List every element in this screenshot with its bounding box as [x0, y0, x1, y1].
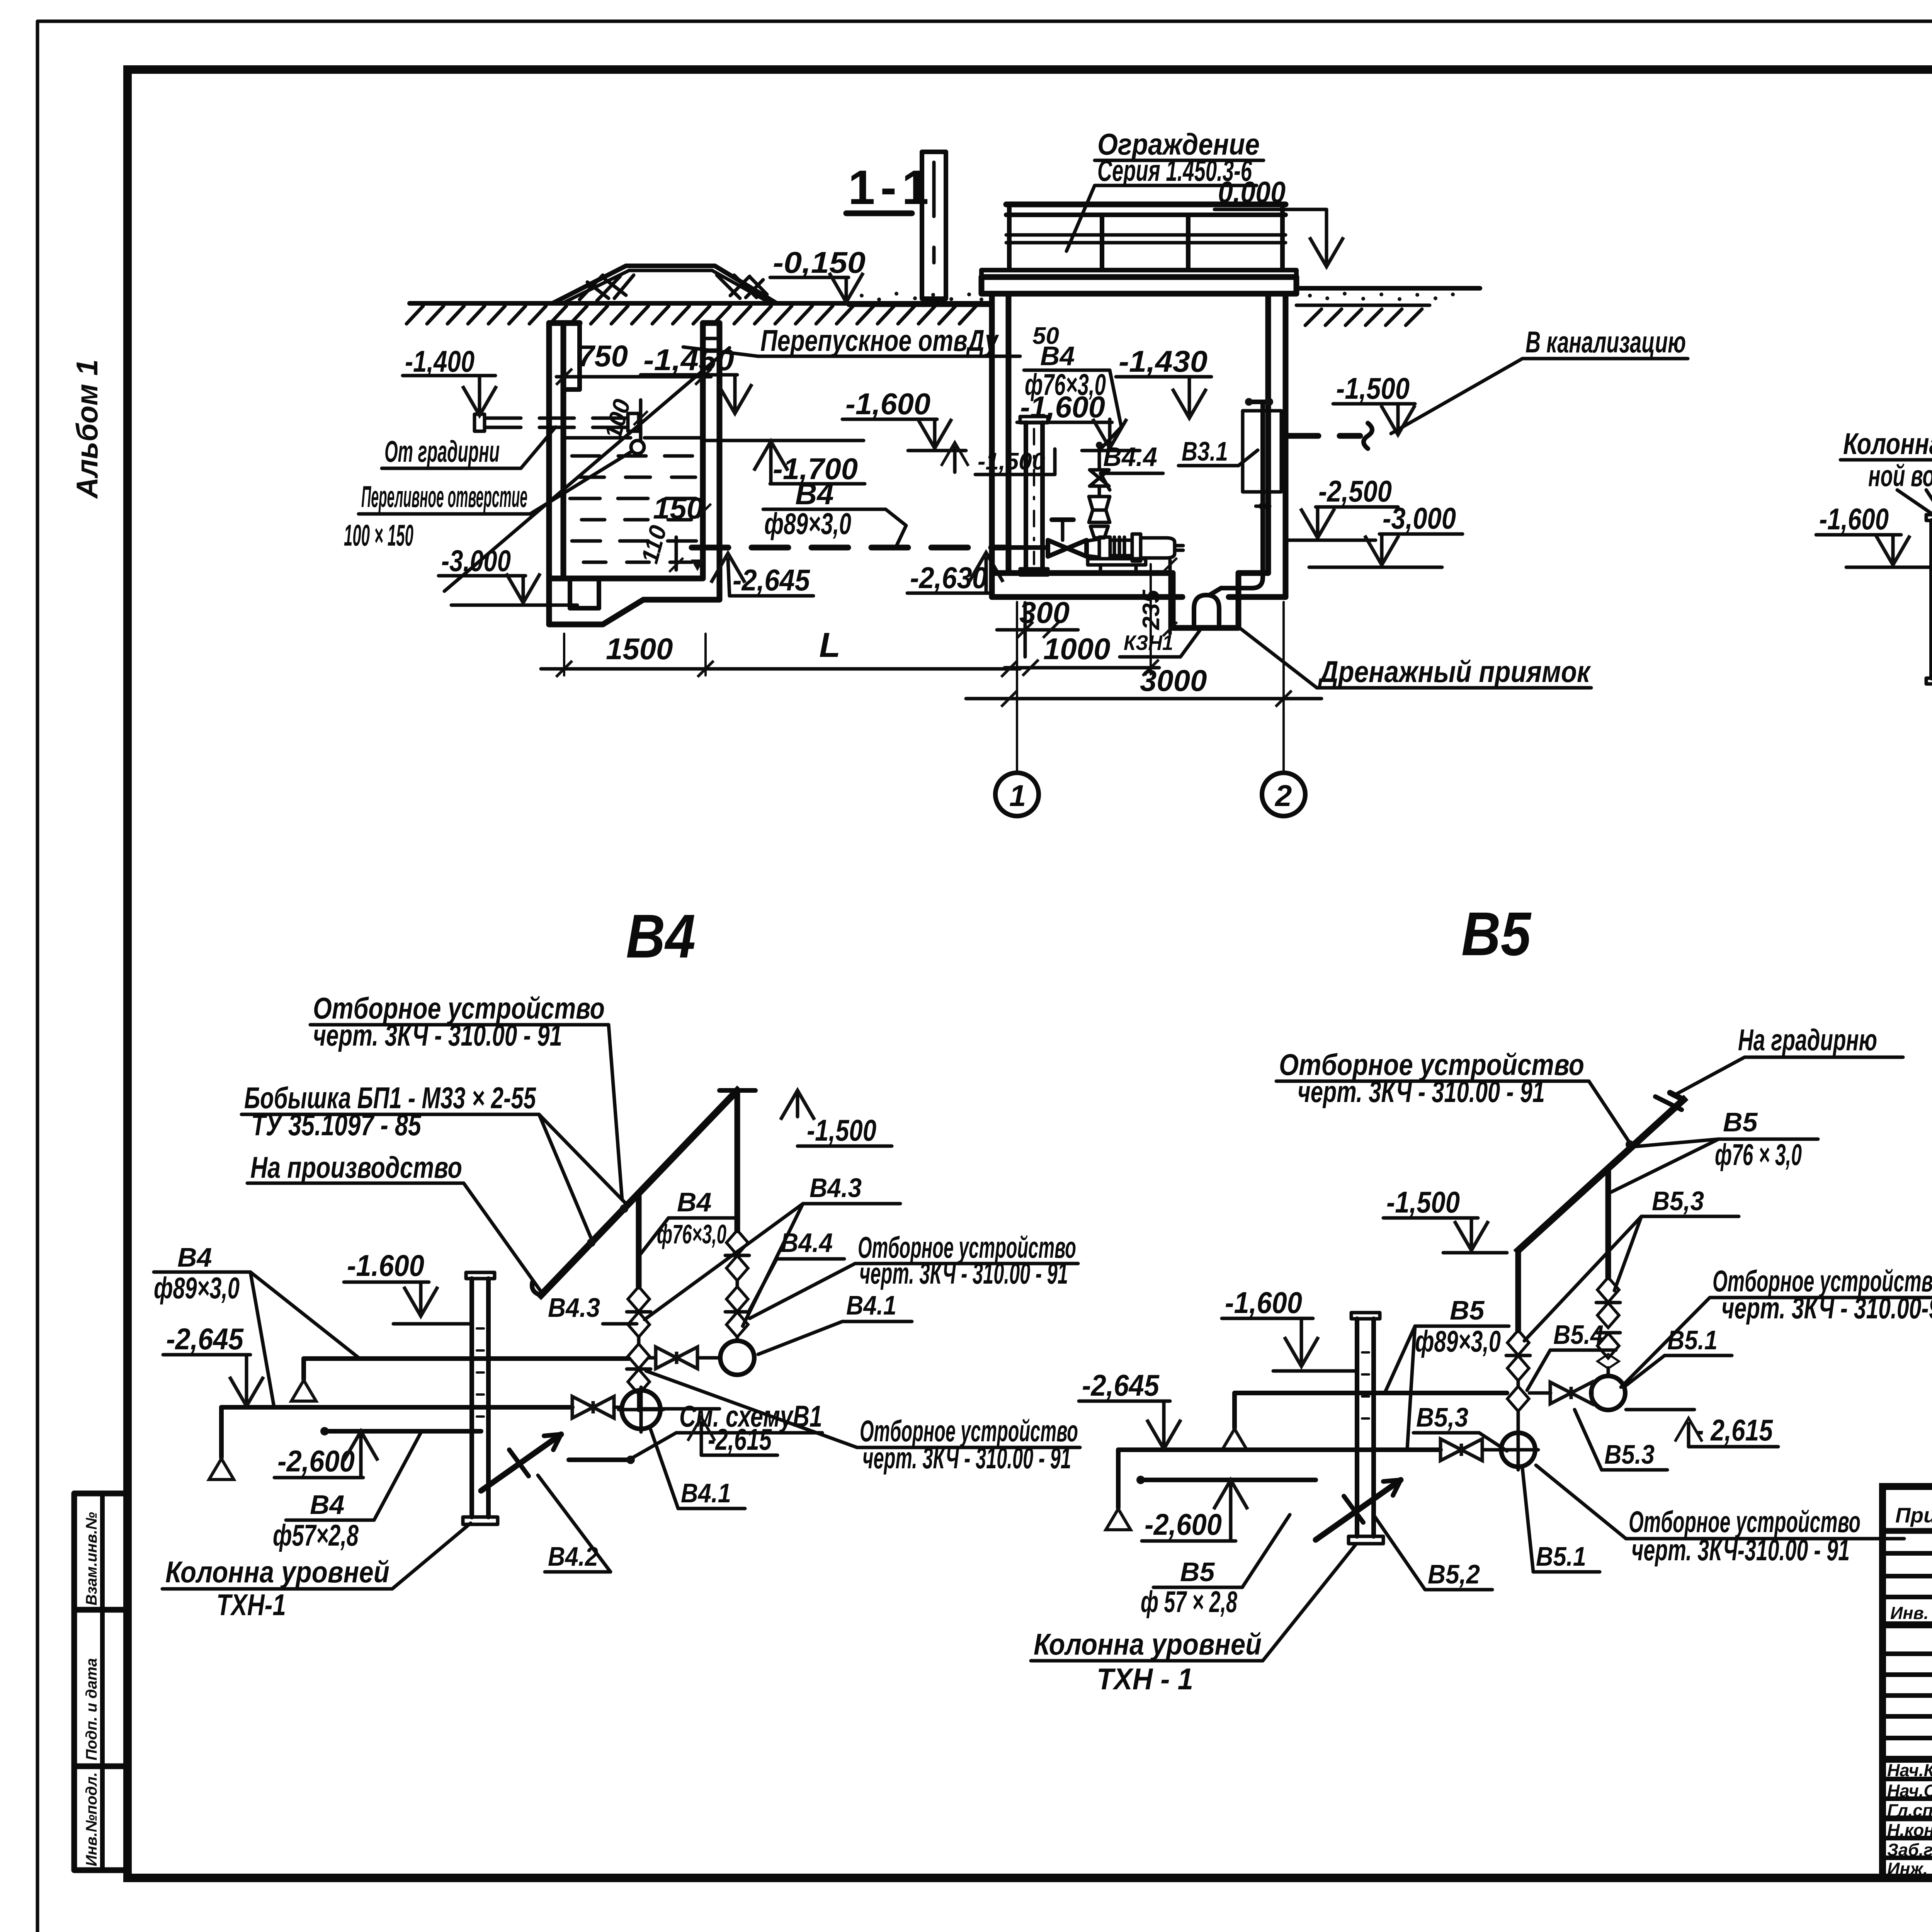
svg-text:2: 2 — [1274, 779, 1292, 813]
svg-text:черт. 3КЧ - 310.00 - 91: черт. 3КЧ - 310.00 - 91 — [313, 1018, 562, 1052]
valve stack B4.3 left — [627, 1287, 651, 1410]
svg-text:Подп. и дата: Подп. и дата — [83, 1658, 100, 1760]
water level line in tank — [566, 436, 631, 440]
svg-text:-2,600: -2,600 — [277, 1444, 355, 1478]
svg-text:-1,500: -1,500 — [807, 1113, 876, 1147]
label Колонна уровней ТХН-1 B5 — [1031, 1545, 1355, 1696]
fence label — [1066, 127, 1264, 251]
svg-text:Дренажный приямок: Дренажный приямок — [1318, 655, 1591, 689]
svg-text:1: 1 — [1009, 779, 1026, 813]
svg-text:черт. 3КЧ-310.00 - 91: черт. 3КЧ-310.00 - 91 — [1631, 1533, 1850, 1567]
svg-text:черт. 3КЧ - 310.00 - 91: черт. 3КЧ - 310.00 - 91 — [1298, 1075, 1545, 1109]
svg-text:Альбом 1: Альбом 1 — [70, 359, 104, 499]
svg-text:В5.1: В5.1 — [1667, 1325, 1718, 1355]
B4 dot line to См.схему В1 — [569, 1456, 635, 1464]
small table Привязан — [1883, 1486, 1932, 1879]
label 0.000 — [1214, 175, 1344, 267]
axis circle 2 — [1262, 602, 1305, 816]
label -3,000 tank floor — [439, 544, 577, 605]
dim 3000 — [966, 663, 1321, 707]
label B4.3 right fan — [645, 1173, 900, 1326]
labels -1,600 x2 — [842, 387, 966, 451]
svg-text:-1,500: -1,500 — [978, 448, 1045, 475]
svg-text:В5: В5 — [1723, 1107, 1758, 1137]
B3 level column — [1926, 515, 1932, 684]
svg-text:В5: В5 — [1461, 899, 1532, 968]
valve stack B5.3 left — [1506, 1330, 1530, 1434]
svg-text:-3,000: -3,000 — [441, 544, 511, 578]
B4 ф57 pipe with dot — [320, 1427, 481, 1435]
svg-text:В4.3: В4.3 — [548, 1293, 600, 1323]
earth mound over tank — [553, 266, 777, 303]
svg-text:В4.4: В4.4 — [781, 1228, 833, 1258]
svg-text:Взам.инв.№: Взам.инв.№ — [83, 1512, 100, 1605]
svg-text:Инж.: Инж. — [1887, 1859, 1928, 1879]
label B4 ф89х3,0 left — [154, 1242, 360, 1406]
B4 lower pipe — [209, 1396, 622, 1480]
inlet pipe from cooling tower — [474, 413, 639, 431]
valve stack B5.3 right — [1596, 1277, 1620, 1376]
B5 vertical drop left — [1515, 1250, 1521, 1330]
svg-text:3000: 3000 — [1140, 663, 1207, 697]
svg-text:В4: В4 — [795, 477, 834, 511]
B5 lower pipe — [1106, 1439, 1501, 1530]
svg-text:Гл.спец.: Гл.спец. — [1887, 1801, 1932, 1820]
drainage pit — [1173, 573, 1238, 628]
label -2,645 — [711, 553, 813, 597]
svg-text:Инв.№подл.: Инв.№подл. — [83, 1772, 100, 1866]
svg-text:ф89×3,0: ф89×3,0 — [764, 507, 851, 541]
label Отборное устройство черт 3КЧ-310.00-91 B5 top — [1276, 1048, 1630, 1143]
valve stack B4.4 in chamber — [1089, 442, 1110, 546]
B4 level column — [463, 1272, 498, 1524]
svg-text:1500: 1500 — [606, 632, 673, 666]
svg-text:В5: В5 — [1180, 1557, 1215, 1587]
dim 1500 — [541, 632, 723, 677]
svg-text:В4: В4 — [626, 901, 696, 971]
label B5 ф89х3,0 — [1385, 1295, 1509, 1448]
svg-text:ф76 × 3,0: ф76 × 3,0 — [1715, 1138, 1802, 1172]
svg-text:ф89×3,0: ф89×3,0 — [1415, 1324, 1501, 1358]
label B4 ф76х3,0 scheme — [641, 1187, 736, 1254]
B5 upper pipe — [1222, 1382, 1592, 1450]
svg-text:300: 300 — [1019, 595, 1070, 629]
sump — [570, 578, 599, 608]
label Отборное устройство B5 right — [1621, 1264, 1932, 1387]
label -1,700 — [703, 440, 865, 486]
svg-text:В5,3: В5,3 — [1416, 1402, 1468, 1432]
label B4.4 — [748, 1228, 844, 1313]
svg-text:-1,600: -1,600 — [1225, 1286, 1302, 1320]
svg-text:-2,500: -2,500 — [1318, 474, 1392, 508]
dim 110 vertical — [636, 522, 683, 572]
cooling water tank walls — [549, 323, 719, 624]
backfill strips with dots — [849, 292, 989, 305]
svg-text:КЗН1: КЗН1 — [1124, 631, 1173, 655]
B5 upper circle — [1591, 1376, 1625, 1410]
svg-text:-1,500: -1,500 — [1386, 1185, 1460, 1219]
svg-text:В3.1: В3.1 — [1182, 436, 1228, 466]
label -2,645 B5 — [1079, 1368, 1181, 1449]
dim 235 vertical — [1138, 558, 1177, 636]
level mark triangle at suction — [691, 560, 704, 571]
label -1,500 B4 — [781, 1090, 892, 1147]
label B3.1 — [1179, 436, 1258, 466]
label Переливное отверстие 100х150 — [344, 452, 631, 552]
label -2,600 B4 — [274, 1431, 378, 1478]
label Бобышка БП1-М33х2-55 ТУ 35.1097-85 — [241, 1081, 626, 1238]
label B5.1 second — [1522, 1468, 1600, 1572]
label B5.3 third — [1575, 1410, 1667, 1470]
svg-text:150: 150 — [653, 491, 703, 525]
svg-text:В5.3: В5.3 — [1604, 1439, 1655, 1469]
svg-text:В4.1: В4.1 — [681, 1478, 731, 1508]
level column in chamber — [1020, 417, 1048, 575]
svg-text:-3,000: -3,000 — [1383, 501, 1456, 535]
pump unit — [1048, 520, 1183, 573]
B3.1 console and pipe right side — [1209, 398, 1281, 595]
label КЗН1 — [1120, 627, 1202, 657]
label B4 ф57х2,8 — [273, 1432, 421, 1552]
label -2,500 — [1287, 474, 1398, 540]
svg-text:0.000: 0.000 — [1218, 175, 1286, 209]
svg-text:ной воды ТХН-1: ной воды ТХН-1 — [1868, 459, 1932, 493]
svg-text:ТУ 35.1097 - 85: ТУ 35.1097 - 85 — [251, 1108, 422, 1142]
svg-text:ф76×3,0: ф76×3,0 — [657, 1219, 726, 1249]
svg-text:-1,500: -1,500 — [1336, 371, 1410, 405]
svg-text:-1,430: -1,430 — [1119, 344, 1207, 378]
svg-text:ф57×2,8: ф57×2,8 — [273, 1518, 359, 1552]
label -2,615 B4 — [643, 1409, 777, 1456]
dim 750 — [556, 339, 711, 385]
label B4.1 first — [758, 1290, 912, 1354]
label -1,600 B3 — [1816, 502, 1932, 567]
B4 lower circle — [619, 1387, 663, 1432]
dim 300 — [997, 595, 1078, 657]
svg-text:Инв. №: Инв. № — [1890, 1603, 1932, 1623]
B4 upper pipe — [291, 1347, 720, 1401]
label B4.4 — [1100, 442, 1163, 490]
svg-text:В5.1: В5.1 — [1536, 1541, 1586, 1571]
label B5,3 first fan — [1524, 1186, 1739, 1341]
label На производство — [247, 1150, 543, 1294]
label -2,630 — [907, 553, 1003, 595]
top slab — [981, 274, 1296, 280]
B5 diagonal pipe — [1518, 1093, 1684, 1250]
svg-text:-2,630: -2,630 — [910, 561, 987, 595]
svg-text:От градирни: От градирни — [384, 434, 500, 468]
svg-text:750: 750 — [578, 339, 628, 373]
svg-text:-1.600: -1.600 — [347, 1248, 424, 1282]
svg-text:Заб.гр.: Заб.гр. — [1887, 1840, 1932, 1860]
section title 1-1 — [846, 161, 934, 214]
svg-text:В4: В4 — [310, 1490, 344, 1520]
dim 100 vertical — [600, 396, 648, 442]
label В канализацию — [1391, 325, 1688, 434]
chamber walls — [981, 277, 1296, 597]
label B4.3 first — [548, 1293, 637, 1324]
svg-text:-2,645: -2,645 — [166, 1322, 244, 1356]
label -1,500 chamber left — [941, 442, 1055, 475]
svg-text:Нач.КТО: Нач.КТО — [1887, 1760, 1932, 1780]
side stamp table — [74, 1493, 128, 1870]
suction pipe dashed -2,630 — [692, 545, 1005, 551]
fence above chamber — [981, 204, 1296, 277]
label Отборное устройство черт.3КЧ-310.00-91 top — [310, 991, 622, 1200]
label B5.1 first — [1625, 1325, 1732, 1386]
svg-text:-1,600: -1,600 — [1819, 502, 1889, 536]
label B5,3 second — [1413, 1402, 1507, 1451]
label B5 ф57х2,8 — [1141, 1515, 1290, 1619]
label B5.4 — [1527, 1320, 1616, 1390]
B5 ф57 pipe with dot — [1136, 1476, 1316, 1484]
label -1,600 B5 — [1222, 1286, 1357, 1371]
label Колонна уровней ТХН-1 B4 — [162, 1523, 471, 1622]
svg-text:L: L — [819, 626, 840, 665]
label Колонна уровней охлажденной воды ТХН-1 — [1840, 427, 1932, 518]
concrete post — [922, 152, 946, 299]
svg-text:ф76×3,0: ф76×3,0 — [1025, 367, 1106, 401]
svg-text:черт. 3КЧ - 310.00-91: черт. 3КЧ - 310.00-91 — [1721, 1291, 1932, 1325]
svg-text:В5,3: В5,3 — [1652, 1186, 1704, 1216]
label -2,615 B5 — [1626, 1410, 1778, 1447]
label -2,600 B5 — [1142, 1480, 1248, 1541]
dim 150 — [653, 491, 711, 526]
svg-text:Колонна уровней охлажден-: Колонна уровней охлажден- — [1843, 427, 1932, 461]
svg-text:На производство: На производство — [250, 1150, 462, 1184]
svg-text:-2,615: -2,615 — [708, 1422, 772, 1456]
svg-text:-1,600: -1,600 — [845, 387, 930, 421]
label Перепускное отвДу50 — [683, 323, 1059, 357]
label Отборное устройство B5 bottom — [1536, 1465, 1904, 1567]
svg-text:Переливное отверстие: Переливное отверстие — [361, 480, 527, 514]
floor slab — [992, 570, 1173, 576]
leader to bypass hole — [444, 348, 730, 591]
svg-text:ТХН - 1: ТХН - 1 — [1097, 1662, 1193, 1696]
overflow hole circle — [631, 440, 644, 454]
svg-text:Колонна уровней: Колонна уровней — [165, 1555, 389, 1589]
label -1,500 right — [1333, 371, 1415, 435]
label B4.2 — [538, 1475, 611, 1572]
svg-text:Колонна уровней: Колонна уровней — [1034, 1627, 1262, 1661]
label B5,2 — [1375, 1517, 1492, 1590]
dim 1000 — [1005, 564, 1159, 676]
label B4 ф76х3,0 chamber — [1024, 341, 1121, 448]
B5 slanted connection with arrow (B5.2) — [1316, 1480, 1401, 1540]
svg-text:Перепускное отвДу: Перепускное отвДу — [760, 323, 999, 357]
svg-text:В4.4: В4.4 — [1103, 442, 1157, 472]
svg-text:ф89×3,0: ф89×3,0 — [154, 1271, 240, 1305]
svg-text:ТХН-1: ТХН-1 — [216, 1588, 286, 1622]
ground hatch left — [406, 306, 976, 324]
label B4 ф89х3,0 pipe callout — [763, 477, 906, 548]
svg-text:В канализацию: В канализацию — [1526, 325, 1686, 359]
svg-text:Н.контр: Н.контр — [1887, 1820, 1932, 1840]
B4 vertical drop right — [735, 1090, 740, 1230]
svg-text:- 2,615: - 2,615 — [1696, 1413, 1773, 1447]
label -1,500 B5 — [1383, 1185, 1507, 1253]
label На градирню — [1673, 1023, 1903, 1096]
svg-text:100 × 150: 100 × 150 — [344, 518, 413, 552]
overflow notch in right wall — [703, 337, 719, 340]
label -1,400 — [403, 344, 497, 415]
svg-text:1000: 1000 — [1043, 632, 1111, 666]
axis circle 1 — [995, 602, 1039, 816]
sewer exit dashed pipe — [1286, 423, 1372, 449]
label Отборное устройство right bottom — [646, 1371, 1080, 1475]
svg-text:Нач.СТО: Нач.СТО — [1887, 1781, 1932, 1801]
label От градирни — [382, 427, 556, 468]
B5 vertical drop right — [1605, 1169, 1611, 1277]
svg-text:черт. 3КЧ - 310.00 - 91: черт. 3КЧ - 310.00 - 91 — [859, 1256, 1068, 1290]
label -1,430 — [1116, 344, 1211, 418]
svg-text:В4: В4 — [177, 1242, 212, 1272]
ground line left — [410, 301, 991, 306]
label -3,000 right — [1309, 501, 1463, 567]
dim L — [723, 626, 1020, 677]
B4 diagonal pipe — [532, 1090, 755, 1295]
B5 lower circle — [1498, 1430, 1538, 1470]
svg-text:-2,645: -2,645 — [1082, 1368, 1160, 1402]
B4 slanted connection with arrow (B4.2) — [481, 1434, 561, 1491]
water dashes in tank — [570, 456, 699, 562]
svg-text:В5.4: В5.4 — [1553, 1320, 1604, 1350]
B4 vertical branch left — [636, 1194, 642, 1287]
tank floor and bottom slab — [549, 576, 703, 582]
svg-text:В4.1: В4.1 — [846, 1290, 896, 1320]
B4 upper circle — [720, 1341, 754, 1375]
label -1,450 — [641, 343, 752, 413]
svg-text:-0,150: -0,150 — [773, 245, 866, 279]
label -0,150 — [770, 245, 866, 302]
label Дренажный приямок — [1241, 629, 1591, 689]
label B5 ф76х3,0 — [1611, 1107, 1818, 1192]
svg-text:-1,400: -1,400 — [405, 344, 474, 378]
label См. схему В1 — [633, 1399, 822, 1458]
svg-text:черт. 3КЧ - 310.00 - 91: черт. 3КЧ - 310.00 - 91 — [862, 1441, 1071, 1475]
svg-text:На градирню: На градирню — [1738, 1023, 1877, 1057]
svg-text:В4.3: В4.3 — [810, 1173, 862, 1203]
svg-text:В4: В4 — [677, 1187, 711, 1217]
svg-text:Привязан: Привязан — [1895, 1503, 1932, 1527]
valve stack B4.4 right — [725, 1230, 749, 1341]
svg-text:ф 57 × 2,8: ф 57 × 2,8 — [1141, 1585, 1237, 1619]
label Отборное устройство right top — [750, 1230, 1078, 1318]
label -1.600 B4 — [344, 1248, 472, 1324]
B5 level column — [1349, 1313, 1383, 1544]
svg-text:В4: В4 — [1040, 341, 1075, 371]
svg-text:В5: В5 — [1450, 1295, 1485, 1325]
label B4.1 second — [651, 1430, 745, 1509]
svg-text:В5,2: В5,2 — [1428, 1559, 1480, 1589]
label -2,645 B4 — [163, 1322, 264, 1406]
svg-text:-2,600: -2,600 — [1145, 1507, 1222, 1541]
